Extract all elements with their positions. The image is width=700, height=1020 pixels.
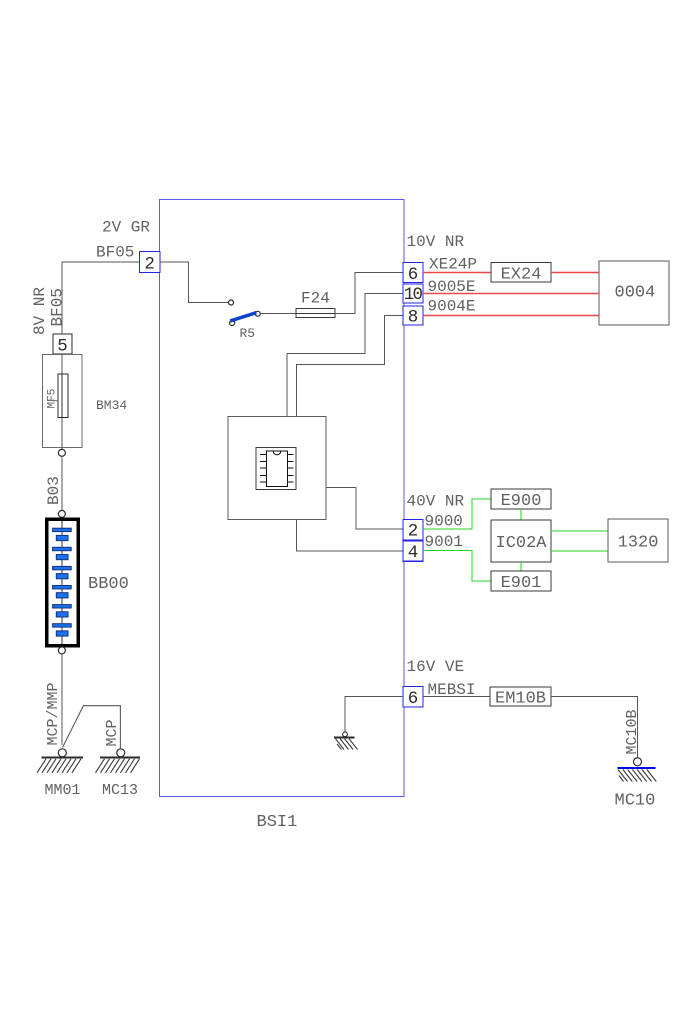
wire pin6 to EX24 (red) bbox=[423, 272, 491, 274]
switch blade R5 bbox=[230, 313, 256, 321]
wire IC02A to E901 (green) bbox=[520, 562, 522, 571]
wire branch to MC13 bbox=[63, 706, 121, 749]
svg-text:9001: 9001 bbox=[425, 533, 463, 551]
label F24 bbox=[301, 290, 330, 308]
svg-text:MM01: MM01 bbox=[45, 782, 81, 799]
wire CPU to pin 4 (9001) bbox=[297, 520, 403, 551]
wire label MEBSI bbox=[428, 681, 476, 699]
svg-text:EX24: EX24 bbox=[501, 266, 542, 285]
wire label MCP/MMP (vertical) bbox=[45, 682, 62, 745]
wire pin6 to EM10B bbox=[423, 696, 490, 698]
label MF5 (vertical) bbox=[47, 389, 59, 409]
fuse F24 bbox=[296, 309, 335, 318]
svg-text:16V VE: 16V VE bbox=[407, 658, 465, 676]
wire label MCP (vertical) bbox=[104, 719, 121, 746]
wire label BF05 bbox=[96, 244, 134, 262]
node contact B of R5 bbox=[255, 311, 260, 316]
svg-text:MCP/MMP: MCP/MMP bbox=[45, 682, 62, 745]
label BSI1 bbox=[257, 813, 298, 832]
IC chip pins bbox=[260, 454, 294, 482]
wire IC02A to 1320 upper (green) bbox=[551, 530, 608, 532]
wire pin2 to R5 contact bbox=[160, 262, 229, 303]
svg-text:BM34: BM34 bbox=[96, 398, 127, 413]
wire label B03 (vertical) bbox=[45, 476, 63, 505]
svg-text:8V NR: 8V NR bbox=[31, 287, 49, 335]
wire label 9000 bbox=[425, 513, 463, 531]
node MM01 bbox=[58, 749, 66, 757]
battery BB00 center link bbox=[61, 521, 63, 644]
box 0004 bbox=[599, 261, 669, 325]
svg-text:40V NR: 40V NR bbox=[407, 493, 465, 511]
connector pin 5 (BM34) bbox=[53, 334, 72, 357]
label BB00 bbox=[88, 575, 129, 594]
wire pin10 to 0004 (red) bbox=[423, 293, 599, 295]
connector pin 8 (9004E) bbox=[403, 306, 423, 327]
ECU box BSI1 bbox=[160, 200, 405, 797]
node internal ground bbox=[343, 732, 348, 737]
connector pin 6 (XE24P) bbox=[403, 263, 423, 285]
wire MCP/MMP bbox=[61, 654, 63, 745]
wire label 9005E bbox=[428, 278, 476, 296]
wire label BF05 (vertical) bbox=[49, 288, 67, 326]
node MC13 bbox=[117, 749, 125, 757]
svg-text:8: 8 bbox=[408, 307, 419, 327]
wire E900 to IC02A (green) bbox=[520, 509, 522, 520]
svg-text:BF05: BF05 bbox=[96, 244, 134, 262]
svg-text:E901: E901 bbox=[501, 574, 542, 593]
svg-text:BF05: BF05 bbox=[49, 288, 67, 326]
svg-text:1320: 1320 bbox=[618, 534, 659, 553]
svg-text:MC10: MC10 bbox=[615, 792, 656, 811]
CPU inner box bbox=[256, 447, 296, 489]
svg-text:BB00: BB00 bbox=[88, 575, 129, 594]
CPU outer box bbox=[228, 416, 326, 519]
svg-text:MF5: MF5 bbox=[47, 389, 59, 409]
box E901 bbox=[491, 571, 551, 593]
node above battery bbox=[58, 510, 65, 517]
box EX24 bbox=[491, 263, 551, 285]
node contact A of R5 bbox=[229, 300, 234, 305]
wire IC02A to 1320 lower (green) bbox=[551, 550, 608, 552]
svg-text:MCP: MCP bbox=[104, 719, 121, 746]
svg-text:4: 4 bbox=[408, 543, 419, 563]
label BM34 bbox=[96, 398, 127, 413]
svg-text:0004: 0004 bbox=[615, 284, 656, 303]
node contact C of R5 bbox=[230, 321, 235, 326]
box E900 bbox=[491, 489, 551, 511]
ground MC13 bbox=[96, 758, 141, 773]
box 1320 bbox=[608, 519, 668, 562]
svg-text:2: 2 bbox=[408, 521, 419, 541]
wire CPU to pin 2 (9000) bbox=[326, 488, 403, 529]
wire pin 10 to CPU bbox=[287, 294, 403, 417]
label 16V VE bbox=[407, 658, 465, 676]
wire label MC10B (vertical) bbox=[624, 709, 641, 754]
node below battery bbox=[58, 647, 65, 654]
wire EM10B to MC10 bbox=[551, 697, 638, 758]
box IC02A bbox=[491, 520, 551, 562]
connector pin 2 (BF05 on BSI1) bbox=[140, 252, 161, 275]
svg-text:10: 10 bbox=[404, 285, 423, 305]
svg-text:XE24P: XE24P bbox=[429, 256, 477, 274]
svg-text:9000: 9000 bbox=[425, 513, 463, 531]
svg-text:5: 5 bbox=[57, 337, 68, 357]
ground MC10 (blue bar) bbox=[617, 768, 656, 782]
wire R5 to fuse F24 bbox=[260, 312, 296, 314]
label 10V NR bbox=[407, 233, 465, 251]
ground MM01 bbox=[37, 758, 83, 773]
wire pin6 to internal ground bbox=[345, 697, 403, 732]
svg-text:F24: F24 bbox=[301, 290, 330, 308]
fuse box BM34 outline bbox=[43, 355, 82, 448]
node below BM34 bbox=[58, 449, 65, 456]
wire B03 bbox=[61, 456, 63, 510]
label MC13 bbox=[102, 782, 138, 799]
svg-text:MC13: MC13 bbox=[102, 782, 138, 799]
wire EX24 to 0004 (red) bbox=[551, 272, 599, 274]
IC chip body bbox=[266, 451, 287, 486]
svg-text:MC10B: MC10B bbox=[624, 709, 641, 754]
wire through BM34 bbox=[61, 354, 63, 450]
node MC10 bbox=[634, 758, 642, 766]
label R5 bbox=[240, 326, 256, 341]
connector pin 2 (9000) bbox=[403, 520, 423, 542]
connector pin 4 (9001) bbox=[403, 541, 423, 563]
battery BB00 outline bbox=[47, 519, 78, 646]
wire pin4 to E901 (green) bbox=[423, 551, 491, 582]
wire pin2 to E900 (green) bbox=[423, 499, 491, 529]
wire label 8V NR (vertical) bbox=[31, 287, 49, 335]
svg-text:B03: B03 bbox=[45, 476, 63, 505]
label 2V GR bbox=[102, 219, 150, 237]
svg-text:6: 6 bbox=[408, 689, 419, 709]
label 40V NR bbox=[407, 493, 465, 511]
label MM01 bbox=[45, 782, 81, 799]
svg-text:E900: E900 bbox=[501, 492, 542, 511]
battery BB00 cells bbox=[53, 528, 72, 636]
connector pin 10 (9005E) bbox=[403, 284, 423, 305]
svg-text:6: 6 bbox=[408, 265, 419, 285]
fuse MF5 body bbox=[58, 374, 68, 417]
connector pin 6 (MEBSI) bbox=[403, 687, 423, 710]
svg-text:2: 2 bbox=[144, 255, 155, 275]
wire label XE24P bbox=[429, 256, 477, 274]
svg-text:R5: R5 bbox=[240, 326, 256, 341]
svg-text:10V NR: 10V NR bbox=[407, 233, 465, 251]
label MC10 bbox=[615, 792, 656, 811]
wire pin 8 to CPU bbox=[297, 316, 403, 417]
svg-text:9004E: 9004E bbox=[428, 298, 476, 316]
svg-text:IC02A: IC02A bbox=[496, 534, 548, 553]
svg-text:2V GR: 2V GR bbox=[102, 219, 150, 237]
wire label 9001 bbox=[425, 533, 463, 551]
wire F24 to pin 6 bbox=[335, 273, 403, 314]
svg-text:EM10B: EM10B bbox=[495, 690, 546, 709]
box EM10B bbox=[490, 687, 551, 709]
svg-text:BSI1: BSI1 bbox=[257, 813, 298, 832]
wire pin8 to 0004 (red) bbox=[423, 315, 599, 317]
ground inside BSI1 bbox=[334, 737, 358, 749]
wire pin2 to connector 5 of BM34 bbox=[62, 262, 140, 334]
wire label 9004E bbox=[428, 298, 476, 316]
